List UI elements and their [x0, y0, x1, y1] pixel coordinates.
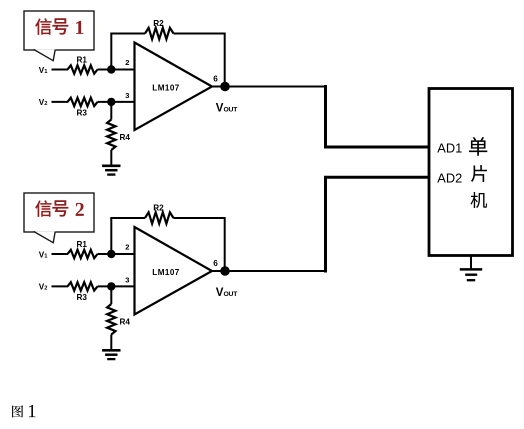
svg-text:R3: R3	[77, 109, 88, 118]
svg-text:3: 3	[125, 91, 129, 100]
wire circuit2 output to AD2	[326, 177, 430, 272]
wire feedback top rail right (circuit 1)	[174, 33, 225, 35]
label 片	[471, 165, 487, 182]
wire feedback top rail left (circuit 1)	[110, 33, 145, 35]
svg-text:R2: R2	[153, 19, 164, 28]
resistor R2 (circuit 2)	[145, 212, 174, 223]
output wire pin 6 (circuit 2)	[212, 270, 326, 272]
callout text 信号 1	[35, 18, 83, 35]
op-amp non-inverting input plus (circuit 1)	[140, 101, 149, 103]
op-amp U1 LM107 triangle	[135, 43, 213, 131]
svg-text:2: 2	[125, 242, 129, 251]
node V1 input wire (circuit 1)	[52, 69, 69, 71]
node V2 input wire (circuit 2)	[52, 285, 69, 287]
wire R3 to op-amp pin 3 (circuit 1)	[98, 101, 135, 103]
node junction dot pin2 (circuit 2)	[107, 250, 115, 258]
label 单	[469, 137, 487, 156]
wire circuit1 output to AD1	[326, 85, 430, 147]
output wire pin 6 (circuit 1)	[212, 86, 326, 88]
svg-text:LM107: LM107	[152, 83, 179, 92]
svg-text:R4: R4	[120, 317, 131, 326]
svg-text:R3: R3	[77, 293, 88, 302]
op-amp inverting input minus (circuit 2)	[140, 253, 148, 255]
node output dot (circuit 2)	[220, 266, 230, 276]
node junction dot pin2 (circuit 1)	[107, 65, 115, 73]
svg-text:6: 6	[213, 259, 218, 268]
svg-text:3: 3	[125, 275, 129, 284]
resistor R4 (circuit 2)	[107, 304, 115, 335]
node V1 input wire (circuit 2)	[52, 253, 69, 255]
callout balloon 信号 2	[24, 193, 94, 232]
node V2 input wire (circuit 1)	[52, 101, 69, 103]
svg-text:R2: R2	[153, 203, 164, 212]
op-amp U2 LM107 triangle	[135, 227, 213, 315]
wire feedback left vertical (circuit 1)	[110, 34, 112, 70]
op-amp inverting input minus (circuit 1)	[140, 68, 148, 70]
wire box to ground	[470, 256, 472, 270]
resistor R1 (circuit 2)	[68, 250, 98, 258]
wire R4 to ground (circuit 1)	[110, 150, 112, 166]
svg-text:AD1: AD1	[437, 140, 462, 155]
resistor R3 (circuit 1)	[68, 98, 98, 106]
op-amp circuit 1	[39, 19, 326, 175]
callout tail (circuit 2)	[33, 231, 56, 243]
wire junction to R4 (circuit 1)	[110, 102, 112, 120]
svg-text:R1: R1	[77, 240, 88, 249]
callout text 信号 2	[35, 200, 84, 217]
node junction dot pin3 (circuit 2)	[107, 282, 115, 290]
ground (circuit 2)	[102, 350, 120, 359]
svg-text:LM107: LM107	[152, 268, 179, 277]
resistor R3 (circuit 2)	[68, 282, 98, 290]
wire feedback top rail right (circuit 2)	[174, 217, 225, 219]
wire R3 to op-amp pin 3 (circuit 2)	[98, 285, 135, 287]
op-amp non-inverting input plus (circuit 2)	[140, 286, 149, 288]
svg-text:2: 2	[125, 58, 129, 67]
resistor R4 (circuit 1)	[107, 120, 115, 151]
wire R4 to ground (circuit 2)	[110, 335, 112, 351]
wire R1 to op-amp pin 2 (circuit 1)	[98, 69, 135, 71]
wire feedback right vertical (circuit 2)	[224, 217, 226, 271]
callout tail (circuit 1)	[33, 49, 56, 61]
ground microcontroller	[460, 269, 482, 280]
callout balloon 信号 1	[24, 11, 94, 50]
ground (circuit 1)	[102, 166, 120, 175]
node output dot (circuit 1)	[220, 82, 230, 92]
label 机	[471, 192, 488, 208]
wire junction to R4 (circuit 2)	[110, 286, 112, 304]
resistor R1 (circuit 1)	[68, 65, 98, 73]
svg-text:R4: R4	[120, 133, 131, 142]
resistor R2 (circuit 1)	[145, 28, 174, 39]
wire feedback left vertical (circuit 2)	[110, 218, 112, 254]
svg-text:R1: R1	[77, 55, 88, 64]
figure caption 图 1	[12, 405, 23, 417]
op-amp circuit 2	[39, 203, 326, 359]
microcontroller box 单片机	[429, 89, 513, 256]
wire feedback right vertical (circuit 1)	[224, 33, 226, 87]
svg-text:AD2: AD2	[437, 171, 462, 186]
wire feedback top rail left (circuit 2)	[110, 217, 145, 219]
wire R1 to op-amp pin 2 (circuit 2)	[98, 253, 135, 255]
node junction dot pin3 (circuit 1)	[107, 98, 115, 106]
svg-text:6: 6	[213, 75, 218, 84]
